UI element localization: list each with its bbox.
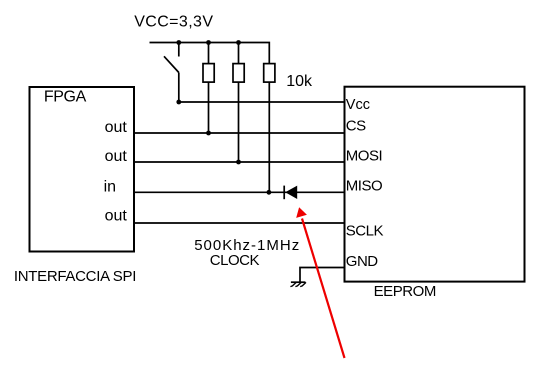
wire MOSI net <box>134 161 345 163</box>
wire R3 bottom to MISO <box>268 82 270 192</box>
junction dot R1-CS <box>206 131 211 136</box>
wire MISO net <box>134 191 345 193</box>
pin label GND <box>346 253 379 270</box>
pin label out (MOSI) <box>105 148 128 165</box>
svg-text:INTERFACCIA SPI: INTERFACCIA SPI <box>14 268 136 285</box>
junction dot switch-Vcc <box>176 100 181 105</box>
label 500Khz-1MHz <box>194 237 300 254</box>
FPGA box U1 <box>30 87 135 252</box>
label EEPROM <box>374 283 436 300</box>
ground symbol <box>290 282 306 286</box>
wire R1 bottom to CS <box>208 82 210 133</box>
junction dot R3-MISO <box>267 190 272 195</box>
wire SCLK net <box>134 222 345 224</box>
wire R2 bottom to MOSI <box>238 82 240 162</box>
pin label out (CS) <box>105 119 128 136</box>
svg-text:VCC=3,3V: VCC=3,3V <box>134 13 213 30</box>
svg-text:CS: CS <box>346 117 366 134</box>
svg-text:Vcc: Vcc <box>346 97 370 113</box>
junction dot rail-switch <box>176 40 181 45</box>
pin label out (SCLK) <box>105 207 128 224</box>
EEPROM box U2 <box>345 87 525 282</box>
wire VCC rail <box>150 43 270 64</box>
wire Vcc net (switch to EEPROM Vcc) <box>179 101 345 103</box>
svg-text:10k: 10k <box>286 73 313 90</box>
pin label Vcc <box>346 97 370 113</box>
svg-text:out: out <box>105 119 128 136</box>
svg-text:MISO: MISO <box>346 177 382 194</box>
svg-text:out: out <box>105 148 128 165</box>
resistor R2 10k <box>233 64 244 83</box>
wire GND stub <box>300 268 345 283</box>
junction dot rail-R2 <box>236 40 241 45</box>
resistor R3 10k <box>264 64 275 83</box>
svg-text:MOSI: MOSI <box>346 148 382 165</box>
junction dot rail-R1 <box>206 40 211 45</box>
net label VCC=3,3V <box>134 13 213 30</box>
label CLOCK <box>210 252 260 269</box>
junction dot R2-MOSI <box>236 160 241 165</box>
diode D1 on MISO line <box>284 186 297 200</box>
svg-text:SCLK: SCLK <box>346 222 384 239</box>
annotation red arrow pointing at diode <box>296 207 344 358</box>
pin label MOSI <box>346 148 382 165</box>
pin label MISO <box>346 177 382 194</box>
svg-text:CLOCK: CLOCK <box>210 252 260 269</box>
wire R1 top <box>208 43 210 64</box>
svg-text:GND: GND <box>346 253 379 270</box>
label FPGA <box>44 89 87 106</box>
svg-text:out: out <box>105 207 128 224</box>
resistor R1 10k <box>203 64 214 83</box>
pin label SCLK <box>346 222 384 239</box>
pin label in (MISO) <box>104 178 116 195</box>
switch SW1 (open) <box>164 43 179 103</box>
wire CS net <box>134 132 345 134</box>
wire R2 top <box>238 43 240 64</box>
pin label CS <box>346 117 366 134</box>
svg-text:in: in <box>104 178 116 195</box>
svg-text:EEPROM: EEPROM <box>374 283 436 300</box>
label INTERFACCIA SPI <box>14 268 136 285</box>
svg-text:FPGA: FPGA <box>44 89 87 106</box>
value label 10k <box>286 73 313 90</box>
